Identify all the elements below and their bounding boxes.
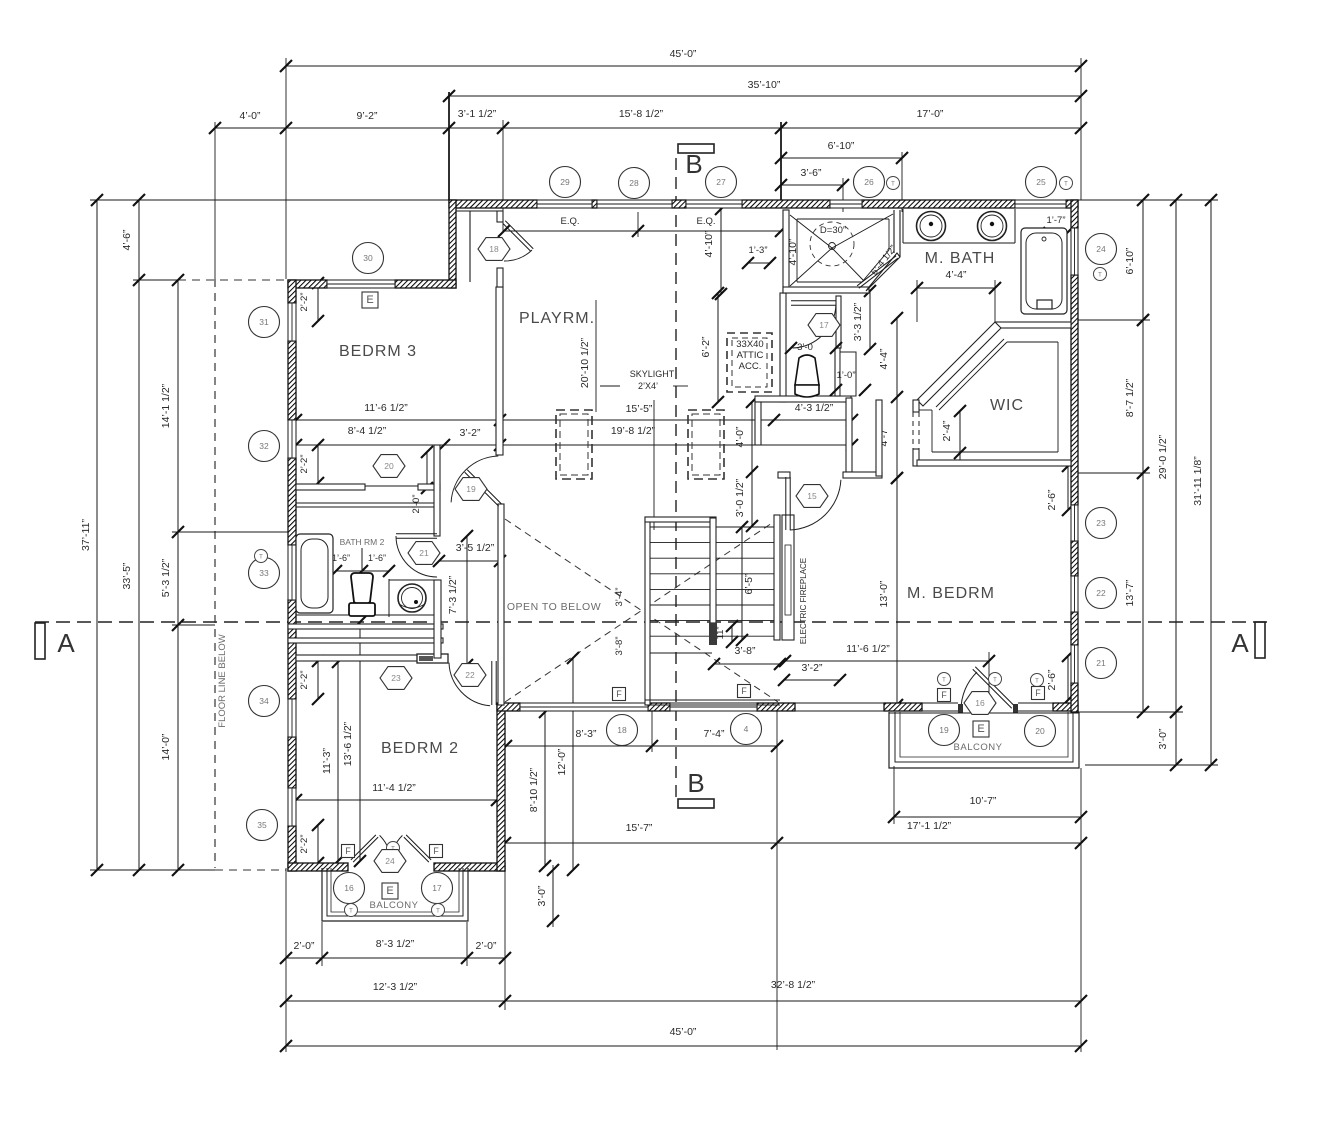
svg-text:2’-2”: 2’-2”: [299, 670, 310, 689]
svg-text:30: 30: [363, 253, 373, 263]
svg-text:B: B: [687, 768, 704, 798]
svg-text:3’-0: 3’-0: [797, 342, 813, 353]
svg-text:2’-4”: 2’-4”: [941, 420, 953, 442]
svg-text:8’-3”: 8’-3”: [575, 728, 597, 740]
svg-text:18: 18: [489, 244, 499, 254]
svg-text:7’-3 1/2”: 7’-3 1/2”: [447, 575, 459, 614]
svg-text:12’-3 1/2”: 12’-3 1/2”: [373, 981, 418, 993]
svg-text:16: 16: [975, 698, 985, 708]
svg-text:T: T: [891, 182, 895, 188]
svg-text:4’-10”: 4’-10”: [703, 230, 715, 257]
svg-text:29’-0 1/2”: 29’-0 1/2”: [1157, 434, 1169, 479]
svg-text:29: 29: [560, 177, 570, 187]
svg-text:BEDRM 3: BEDRM 3: [339, 343, 417, 360]
svg-text:A: A: [1231, 628, 1249, 658]
svg-text:M. BEDRM: M. BEDRM: [907, 585, 995, 602]
svg-text:14’-1 1/2”: 14’-1 1/2”: [160, 383, 172, 428]
svg-text:F: F: [616, 689, 622, 699]
svg-text:4’-0”: 4’-0”: [734, 426, 746, 448]
svg-text:3’-3 1/2”: 3’-3 1/2”: [852, 302, 864, 341]
svg-text:SKYLIGHT: SKYLIGHT: [630, 369, 675, 379]
svg-text:2’-0”: 2’-0”: [411, 494, 422, 513]
svg-text:15: 15: [807, 491, 817, 501]
svg-text:T: T: [1098, 273, 1102, 279]
svg-text:F: F: [941, 690, 947, 700]
svg-text:1’-7”: 1’-7”: [1046, 215, 1065, 226]
svg-text:2’-2”: 2’-2”: [299, 834, 310, 853]
svg-text:3’-1 1/2”: 3’-1 1/2”: [458, 108, 497, 120]
svg-text:6’-5”: 6’-5”: [743, 573, 755, 595]
svg-text:22: 22: [1096, 588, 1106, 598]
svg-text:32’-8 1/2”: 32’-8 1/2”: [771, 979, 816, 991]
svg-text:26: 26: [864, 177, 874, 187]
svg-text:T: T: [259, 555, 263, 561]
svg-text:32: 32: [259, 441, 269, 451]
svg-text:11’-6 1/2”: 11’-6 1/2”: [364, 402, 408, 414]
svg-text:45’-0”: 45’-0”: [670, 48, 697, 60]
svg-text:20: 20: [1035, 726, 1045, 736]
svg-text:19: 19: [466, 484, 476, 494]
svg-text:1’-0”: 1’-0”: [836, 370, 855, 381]
svg-text:M. BATH: M. BATH: [925, 250, 996, 267]
svg-text:PLAYRM.: PLAYRM.: [519, 310, 595, 327]
svg-text:21: 21: [1096, 658, 1106, 668]
svg-text:12’-0”: 12’-0”: [556, 748, 568, 775]
svg-text:20: 20: [384, 461, 394, 471]
svg-text:25: 25: [1036, 177, 1046, 187]
svg-text:45’-0”: 45’-0”: [670, 1026, 697, 1038]
svg-text:10’-7”: 10’-7”: [970, 795, 997, 807]
svg-text:T: T: [1035, 679, 1039, 685]
svg-text:8’-3 1/2”: 8’-3 1/2”: [376, 938, 415, 950]
svg-text:F: F: [433, 846, 439, 856]
svg-text:11’-4 1/2”: 11’-4 1/2”: [372, 782, 416, 794]
svg-text:6’-10”: 6’-10”: [1124, 247, 1136, 274]
svg-text:11’-6 1/2”: 11’-6 1/2”: [846, 643, 890, 655]
svg-text:F: F: [741, 686, 747, 696]
svg-text:18: 18: [617, 725, 627, 735]
svg-text:34: 34: [259, 696, 269, 706]
svg-text:2’X4’: 2’X4’: [638, 381, 658, 391]
svg-text:16: 16: [344, 883, 354, 893]
svg-text:31’-11 1/8”: 31’-11 1/8”: [1192, 456, 1204, 506]
svg-text:2’-2”: 2’-2”: [299, 292, 310, 311]
svg-text:19’-8 1/2”: 19’-8 1/2”: [611, 425, 656, 437]
svg-text:17: 17: [819, 320, 829, 330]
svg-text:3’-0”: 3’-0”: [1157, 728, 1169, 750]
svg-text:33’-5”: 33’-5”: [121, 562, 133, 589]
svg-text:4’-4”: 4’-4”: [945, 269, 967, 281]
svg-text:11’-3”: 11’-3”: [321, 747, 333, 774]
svg-text:14’-0”: 14’-0”: [160, 733, 172, 760]
svg-text:ELECTRIC FIREPLACE: ELECTRIC FIREPLACE: [799, 558, 808, 644]
svg-text:3’-0”: 3’-0”: [536, 885, 548, 907]
svg-text:B: B: [685, 149, 702, 179]
svg-text:2’-6”: 2’-6”: [1046, 489, 1058, 511]
svg-text:D=30”: D=30”: [820, 225, 846, 236]
svg-text:4’-3 1/2”: 4’-3 1/2”: [795, 402, 834, 414]
svg-text:6’-10”: 6’-10”: [828, 140, 855, 152]
svg-text:3’-4”: 3’-4”: [614, 587, 625, 606]
svg-text:F: F: [1035, 688, 1041, 698]
svg-text:FLOOR LINE BELOW: FLOOR LINE BELOW: [217, 634, 228, 727]
svg-text:OPEN TO BELOW: OPEN TO BELOW: [507, 601, 601, 613]
svg-text:17’-1 1/2”: 17’-1 1/2”: [907, 820, 952, 832]
svg-text:13’-6 1/2”: 13’-6 1/2”: [342, 721, 354, 766]
svg-text:27: 27: [716, 177, 726, 187]
svg-text:23: 23: [391, 673, 401, 683]
svg-text:1’-6”: 1’-6”: [332, 553, 350, 563]
svg-text:T: T: [942, 678, 946, 684]
svg-text:4: 4: [744, 724, 749, 734]
svg-text:24: 24: [1096, 244, 1106, 254]
svg-text:17: 17: [432, 883, 442, 893]
svg-text:15’-7”: 15’-7”: [626, 822, 653, 834]
svg-text:BALCONY: BALCONY: [954, 742, 1003, 753]
svg-text:35: 35: [257, 820, 267, 830]
svg-text:E: E: [366, 294, 373, 306]
svg-text:28: 28: [629, 178, 639, 188]
svg-text:5’-3 1/2”: 5’-3 1/2”: [160, 558, 172, 597]
svg-text:ACC.: ACC.: [739, 361, 762, 372]
svg-text:33X40: 33X40: [736, 339, 763, 350]
svg-text:E: E: [977, 723, 984, 735]
svg-text:13’-0”: 13’-0”: [878, 580, 890, 607]
svg-text:T: T: [436, 909, 440, 915]
svg-text:2’-0”: 2’-0”: [475, 940, 497, 952]
svg-text:3’-2”: 3’-2”: [801, 662, 823, 674]
svg-text:15’-5”: 15’-5”: [626, 403, 653, 415]
svg-text:33: 33: [259, 568, 269, 578]
svg-text:23: 23: [1096, 518, 1106, 528]
svg-text:3’-5 1/2”: 3’-5 1/2”: [456, 542, 495, 554]
svg-text:F: F: [345, 846, 351, 856]
svg-text:19: 19: [939, 725, 949, 735]
svg-text:31: 31: [259, 317, 269, 327]
svg-text:BEDRM 2: BEDRM 2: [381, 740, 459, 757]
svg-text:3’-6”: 3’-6”: [800, 167, 822, 179]
svg-text:2’-2”: 2’-2”: [299, 454, 310, 473]
svg-text:22: 22: [465, 670, 475, 680]
svg-text:3’-0 1/2”: 3’-0 1/2”: [734, 478, 746, 517]
svg-text:21: 21: [419, 548, 429, 558]
svg-text:24: 24: [385, 856, 395, 866]
svg-text:3’-8”: 3’-8”: [614, 636, 625, 655]
svg-text:20’-10 1/2”: 20’-10 1/2”: [579, 337, 591, 388]
svg-text:4’-4”: 4’-4”: [878, 348, 890, 370]
svg-text:4’-0”: 4’-0”: [239, 110, 261, 122]
svg-text:8’-10 1/2”: 8’-10 1/2”: [528, 767, 540, 812]
svg-text:WIC: WIC: [990, 397, 1024, 414]
svg-text:BALCONY: BALCONY: [370, 900, 419, 911]
svg-text:3’-8”: 3’-8”: [734, 645, 756, 657]
svg-text:17’-0”: 17’-0”: [917, 108, 944, 120]
svg-text:BATH RM 2: BATH RM 2: [340, 537, 385, 547]
svg-text:37’-11”: 37’-11”: [80, 519, 92, 551]
svg-text:4’-6”: 4’-6”: [121, 229, 133, 251]
svg-text:T: T: [1064, 182, 1068, 188]
svg-text:7’-4”: 7’-4”: [703, 728, 725, 740]
svg-text:13’-7”: 13’-7”: [1124, 579, 1136, 606]
svg-text:15’-8 1/2”: 15’-8 1/2”: [619, 108, 664, 120]
svg-text:1’-3”: 1’-3”: [748, 245, 767, 256]
svg-text:ATTIC: ATTIC: [737, 350, 764, 361]
svg-text:E.Q.: E.Q.: [560, 216, 579, 227]
svg-text:2’-6”: 2’-6”: [1046, 669, 1058, 691]
svg-text:8’-4 1/2”: 8’-4 1/2”: [348, 425, 387, 437]
svg-text:9’-2”: 9’-2”: [356, 110, 378, 122]
svg-text:T: T: [993, 678, 997, 684]
svg-text:T: T: [349, 909, 353, 915]
svg-text:1’-6”: 1’-6”: [368, 553, 386, 563]
svg-text:E.Q.: E.Q.: [696, 216, 715, 227]
svg-text:2’-0”: 2’-0”: [293, 940, 315, 952]
svg-text:6’-2”: 6’-2”: [700, 336, 712, 358]
svg-text:A: A: [57, 628, 75, 658]
svg-text:E: E: [386, 885, 393, 897]
svg-text:3’-2”: 3’-2”: [459, 427, 481, 439]
svg-text:35’-10”: 35’-10”: [748, 79, 781, 91]
svg-text:8’-7 1/2”: 8’-7 1/2”: [1124, 378, 1136, 417]
